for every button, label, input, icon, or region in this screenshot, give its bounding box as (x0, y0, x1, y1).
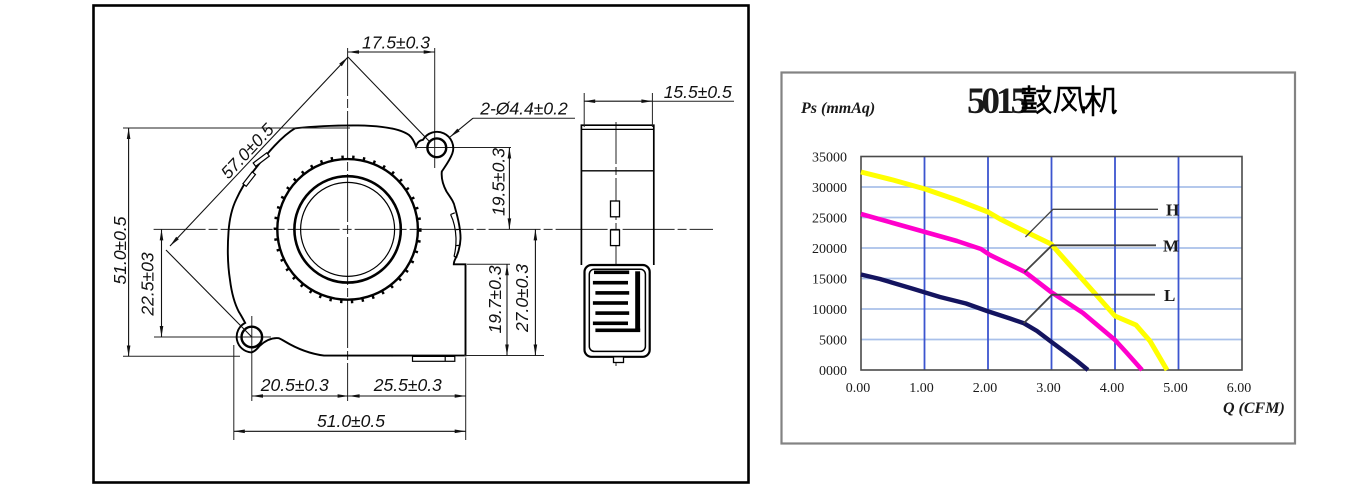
svg-text:51.0±0.5: 51.0±0.5 (317, 411, 385, 431)
svg-text:6.00: 6.00 (1227, 381, 1252, 396)
svg-text:Q (CFM): Q (CFM) (1223, 400, 1285, 417)
svg-text:10000: 10000 (812, 303, 847, 318)
svg-text:M: M (1163, 237, 1179, 256)
svg-text:2.00: 2.00 (973, 381, 998, 396)
svg-text:20000: 20000 (812, 242, 847, 257)
svg-text:H: H (1166, 201, 1179, 220)
svg-text:15.5±0.5: 15.5±0.5 (664, 82, 732, 102)
svg-text:25000: 25000 (812, 212, 847, 227)
svg-text:22.5±03: 22.5±03 (138, 252, 158, 316)
svg-text:19.7±0.3: 19.7±0.3 (485, 265, 505, 333)
svg-text:5000: 5000 (819, 334, 847, 349)
svg-text:27.0±0.3: 27.0±0.3 (512, 264, 532, 333)
svg-text:0.00: 0.00 (846, 381, 871, 396)
svg-text:35000: 35000 (812, 151, 847, 166)
svg-text:19.5±0.3: 19.5±0.3 (489, 148, 509, 216)
svg-text:25.5±0.3: 25.5±0.3 (373, 375, 442, 395)
svg-text:30000: 30000 (812, 181, 847, 196)
svg-text:L: L (1164, 286, 1175, 305)
svg-text:17.5±0.3: 17.5±0.3 (362, 33, 430, 53)
svg-text:15000: 15000 (812, 273, 847, 288)
svg-text:0000: 0000 (819, 364, 847, 379)
svg-text:Ps (mmAq): Ps (mmAq) (800, 100, 875, 117)
svg-text:5015: 5015 (967, 81, 1029, 122)
svg-text:4.00: 4.00 (1100, 381, 1125, 396)
svg-text:3.00: 3.00 (1036, 381, 1061, 396)
svg-text:51.0±0.5: 51.0±0.5 (110, 216, 130, 284)
svg-text:2-Ø4.4±0.2: 2-Ø4.4±0.2 (479, 99, 568, 119)
svg-text:5.00: 5.00 (1163, 381, 1188, 396)
svg-text:20.5±0.3: 20.5±0.3 (260, 375, 329, 395)
svg-text:1.00: 1.00 (909, 381, 934, 396)
